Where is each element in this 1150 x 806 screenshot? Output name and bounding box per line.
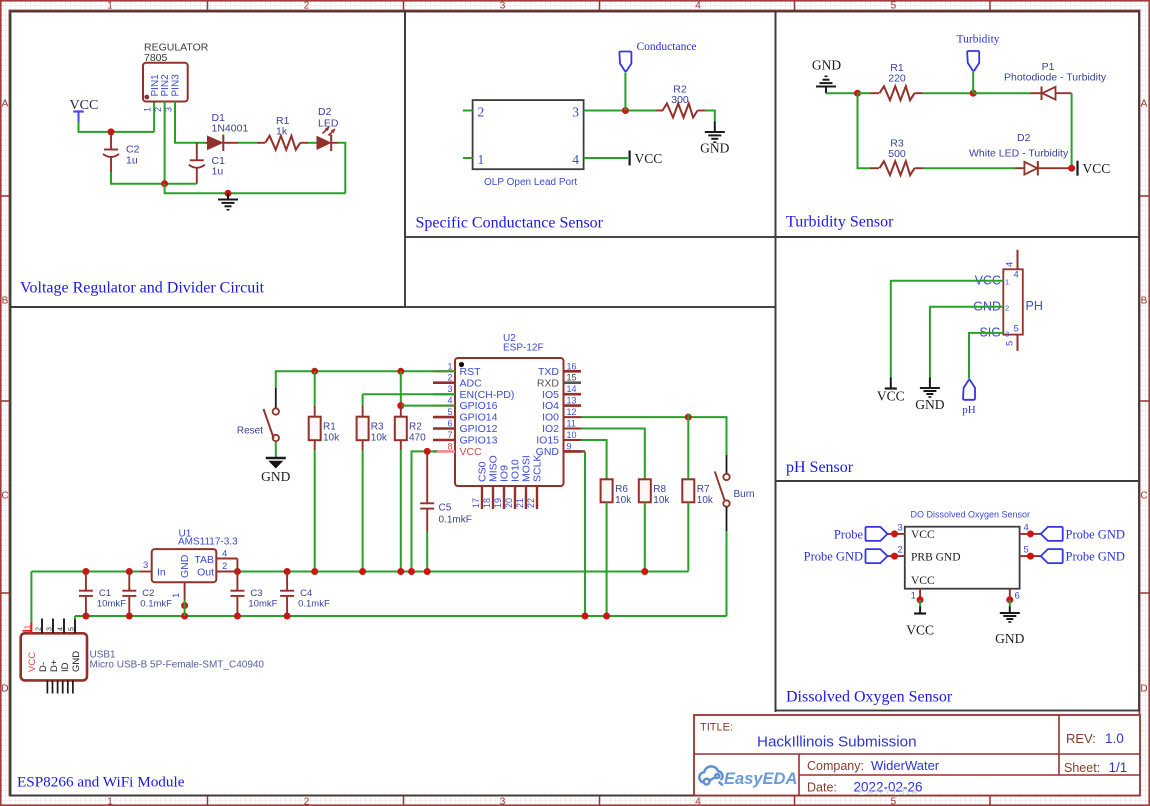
svg-text:Voltage Regulator and Divider: Voltage Regulator and Divider Circuit (20, 280, 265, 297)
svg-text:R1: R1 (323, 422, 336, 433)
svg-text:17: 17 (471, 498, 481, 508)
svg-text:In: In (157, 567, 166, 579)
svg-text:5: 5 (447, 407, 452, 417)
svg-text:A: A (2, 99, 9, 110)
svg-text:22: 22 (526, 498, 536, 508)
svg-text:pH Sensor: pH Sensor (786, 459, 854, 476)
svg-text:Photodiode - Turbidity: Photodiode - Turbidity (1004, 72, 1107, 84)
svg-text:Out: Out (197, 567, 214, 579)
svg-text:5: 5 (69, 627, 76, 631)
svg-text:4: 4 (447, 396, 452, 406)
svg-text:VCC: VCC (877, 389, 905, 404)
svg-text:IO4: IO4 (542, 400, 559, 412)
svg-text:0.1mkF: 0.1mkF (439, 515, 472, 526)
svg-text:Company:: Company: (807, 759, 864, 773)
svg-text:10k: 10k (653, 495, 670, 506)
svg-text:REV:: REV: (1066, 731, 1096, 746)
svg-text:2: 2 (36, 627, 43, 631)
svg-text:D: D (1140, 684, 1147, 695)
svg-text:GND: GND (915, 397, 944, 412)
svg-text:GND: GND (179, 554, 191, 578)
svg-text:ESP8266 and WiFi Module: ESP8266 and WiFi Module (17, 774, 185, 791)
svg-text:10k: 10k (697, 495, 714, 506)
svg-text:EasyEDA: EasyEDA (724, 770, 797, 788)
svg-text:1.0: 1.0 (1105, 731, 1124, 746)
svg-text:9: 9 (567, 441, 572, 451)
svg-text:VCC: VCC (460, 446, 483, 458)
svg-text:Probe: Probe (834, 527, 864, 541)
svg-text:21: 21 (515, 498, 525, 508)
svg-text:B: B (1141, 296, 1148, 307)
svg-text:R3: R3 (371, 422, 384, 433)
svg-text:1: 1 (911, 591, 916, 602)
svg-text:D+: D+ (49, 659, 60, 672)
svg-text:PIN2: PIN2 (160, 74, 171, 97)
svg-text:0.1mkF: 0.1mkF (140, 599, 172, 610)
svg-text:5: 5 (1014, 324, 1019, 335)
svg-text:Conductance: Conductance (637, 41, 697, 53)
svg-text:White LED - Turbidity: White LED - Turbidity (969, 148, 1069, 160)
svg-text:7: 7 (447, 430, 452, 440)
svg-text:500: 500 (888, 148, 906, 160)
svg-text:GPIO16: GPIO16 (460, 400, 498, 412)
svg-text:C: C (1, 491, 8, 502)
svg-text:C2: C2 (142, 588, 154, 599)
svg-text:GND: GND (995, 631, 1024, 646)
svg-text:2: 2 (153, 107, 163, 112)
svg-text:1N4001: 1N4001 (212, 123, 249, 135)
svg-text:5: 5 (891, 1, 897, 12)
svg-text:RST: RST (460, 366, 482, 378)
svg-text:PRB GND: PRB GND (911, 552, 961, 564)
svg-text:2: 2 (447, 373, 452, 383)
svg-text:13: 13 (567, 396, 577, 406)
svg-text:ID: ID (60, 662, 71, 672)
svg-text:6: 6 (1015, 591, 1020, 602)
svg-text:IO5: IO5 (542, 389, 559, 401)
svg-text:1/1: 1/1 (1109, 760, 1128, 775)
svg-text:A: A (1141, 99, 1148, 110)
svg-text:2: 2 (898, 545, 903, 556)
svg-text:12: 12 (567, 407, 577, 417)
svg-text:16: 16 (567, 361, 577, 371)
svg-text:R6: R6 (615, 484, 628, 495)
svg-text:HackIllinois Submission: HackIllinois Submission (757, 734, 917, 751)
svg-text:3: 3 (47, 627, 54, 631)
svg-text:Specific Conductance Sensor: Specific Conductance Sensor (416, 215, 604, 232)
svg-text:RXD: RXD (537, 377, 560, 389)
svg-text:3: 3 (500, 796, 506, 806)
svg-text:EASYEDA: EASYEDA (858, 787, 920, 798)
svg-text:18: 18 (482, 498, 492, 508)
svg-text:2: 2 (222, 561, 227, 572)
svg-text:20: 20 (504, 498, 514, 508)
svg-text:R8: R8 (653, 484, 666, 495)
svg-text:1: 1 (107, 796, 113, 806)
svg-text:1: 1 (171, 593, 182, 598)
svg-text:Date:: Date: (807, 781, 837, 795)
svg-text:Turbidity: Turbidity (957, 34, 1000, 46)
svg-text:GPIO14: GPIO14 (460, 412, 498, 424)
svg-text:2: 2 (478, 105, 485, 120)
svg-text:5: 5 (1024, 545, 1029, 556)
svg-text:3: 3 (447, 384, 452, 394)
svg-text:VCC: VCC (911, 529, 935, 541)
svg-text:Dissolved Oxygen Sensor: Dissolved Oxygen Sensor (786, 689, 953, 706)
svg-text:C1: C1 (99, 588, 111, 599)
svg-text:11: 11 (567, 419, 576, 429)
svg-text:1: 1 (25, 625, 32, 629)
svg-text:VCC: VCC (1083, 161, 1111, 176)
svg-text:470: 470 (409, 433, 426, 444)
svg-text:VCC: VCC (635, 151, 663, 166)
svg-text:10k: 10k (323, 433, 340, 444)
svg-text:3: 3 (500, 1, 506, 12)
svg-text:10mkF: 10mkF (248, 599, 277, 610)
svg-text:10k: 10k (615, 495, 632, 506)
svg-text:4: 4 (572, 152, 579, 167)
svg-text:3: 3 (143, 560, 148, 571)
svg-text:D2: D2 (1017, 132, 1031, 144)
svg-text:1: 1 (1005, 277, 1009, 286)
svg-text:DO Dissolved Oxygen Sensor: DO Dissolved Oxygen Sensor (911, 510, 1031, 520)
svg-text:1: 1 (143, 107, 153, 112)
svg-text:14: 14 (567, 384, 577, 394)
svg-text:pH: pH (962, 404, 976, 416)
svg-text:OLP Open Lead Port: OLP Open Lead Port (484, 177, 577, 188)
svg-text:Probe GND: Probe GND (1066, 527, 1125, 541)
svg-text:D: D (1, 684, 8, 695)
svg-text:4: 4 (1014, 270, 1019, 281)
svg-text:Burn: Burn (734, 489, 755, 500)
svg-text:1: 1 (447, 361, 452, 371)
svg-text:3: 3 (572, 105, 579, 120)
svg-text:2: 2 (304, 796, 310, 806)
svg-text:GPIO12: GPIO12 (460, 423, 498, 435)
svg-text:19: 19 (493, 498, 503, 508)
svg-text:B: B (2, 296, 9, 307)
svg-text:IO0: IO0 (542, 412, 559, 424)
svg-text:D-: D- (38, 662, 49, 672)
svg-text:2: 2 (304, 1, 310, 12)
svg-text:C: C (1140, 491, 1147, 502)
svg-text:C4: C4 (300, 588, 312, 599)
svg-text:GND: GND (261, 469, 290, 484)
svg-text:2: 2 (1005, 303, 1009, 312)
svg-text:R7: R7 (697, 484, 710, 495)
svg-text:GPIO13: GPIO13 (460, 435, 498, 447)
svg-text:10k: 10k (371, 433, 388, 444)
svg-text:4: 4 (1005, 262, 1016, 267)
svg-text:GND: GND (812, 58, 841, 73)
svg-text:ESP-12F: ESP-12F (503, 343, 544, 354)
svg-text:Turbidity Sensor: Turbidity Sensor (786, 214, 894, 231)
svg-text:GND: GND (71, 651, 82, 672)
svg-text:GND: GND (700, 141, 729, 156)
svg-text:4: 4 (1024, 523, 1029, 534)
svg-text:Probe GND: Probe GND (1066, 550, 1125, 564)
svg-text:R2: R2 (409, 422, 422, 433)
svg-text:Sheet:: Sheet: (1064, 761, 1100, 775)
svg-text:10mkF: 10mkF (97, 599, 126, 610)
svg-text:4: 4 (695, 796, 701, 806)
svg-text:C5: C5 (439, 503, 452, 514)
svg-text:1: 1 (107, 1, 113, 12)
svg-text:0.1mkF: 0.1mkF (298, 599, 330, 610)
svg-text:VCC: VCC (906, 623, 934, 638)
svg-text:1: 1 (478, 152, 485, 167)
svg-text:6: 6 (447, 419, 452, 429)
svg-text:300: 300 (671, 94, 689, 106)
svg-text:10: 10 (567, 430, 577, 440)
svg-text:7805: 7805 (144, 52, 168, 64)
svg-text:4: 4 (695, 1, 701, 12)
svg-text:5: 5 (1005, 341, 1016, 346)
svg-text:220: 220 (888, 73, 906, 85)
svg-text:Probe GND: Probe GND (804, 550, 863, 564)
svg-text:3: 3 (898, 523, 903, 534)
svg-text:Micro USB-B 5P-Female-SMT_C409: Micro USB-B 5P-Female-SMT_C40940 (90, 660, 265, 671)
svg-text:VCC: VCC (911, 575, 935, 587)
svg-text:4: 4 (222, 549, 227, 560)
svg-text:EN(CH-PD): EN(CH-PD) (460, 389, 515, 401)
svg-text:TITLE:: TITLE: (700, 722, 733, 734)
svg-text:1u: 1u (212, 166, 224, 178)
svg-text:ADC: ADC (460, 377, 483, 389)
svg-text:VCC: VCC (27, 652, 38, 672)
svg-text:4: 4 (58, 627, 65, 631)
svg-text:PIN1: PIN1 (150, 74, 161, 97)
svg-text:15: 15 (567, 373, 577, 383)
svg-text:8: 8 (447, 441, 452, 451)
svg-text:PH: PH (1026, 299, 1043, 313)
svg-text:SCLK: SCLK (532, 455, 544, 482)
svg-text:TAB: TAB (194, 554, 214, 566)
svg-text:TXD: TXD (538, 366, 559, 378)
svg-text:D2: D2 (318, 106, 332, 118)
svg-text:3: 3 (1005, 329, 1009, 338)
svg-text:PIN3: PIN3 (171, 74, 182, 97)
svg-text:IO15: IO15 (536, 435, 559, 447)
svg-text:Reset: Reset (237, 426, 263, 437)
svg-text:1u: 1u (126, 155, 138, 167)
svg-text:C3: C3 (250, 588, 262, 599)
svg-text:IO2: IO2 (542, 423, 559, 435)
svg-text:AMS1117-3.3: AMS1117-3.3 (178, 537, 238, 548)
svg-text:WiderWater: WiderWater (871, 758, 940, 773)
